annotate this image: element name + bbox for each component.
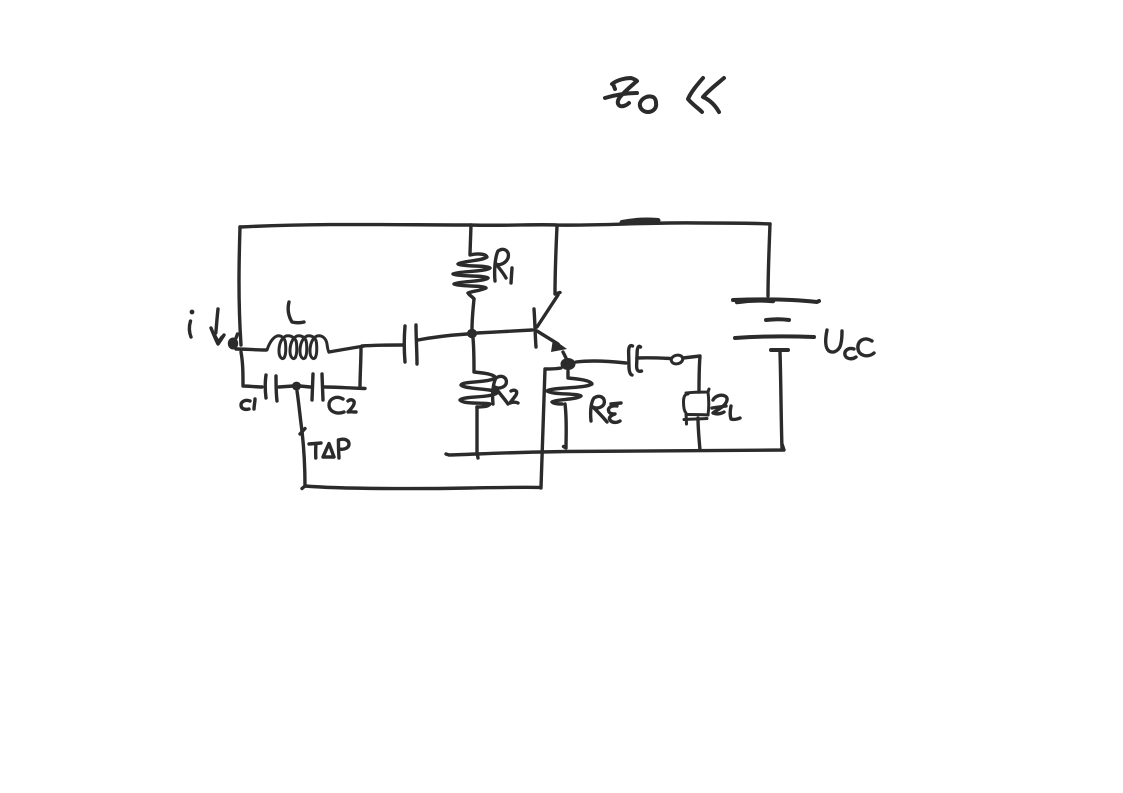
output terminal [670, 354, 683, 365]
label VCC [826, 330, 874, 359]
wire input node to inductor [236, 349, 266, 350]
wire base node to R2 [473, 338, 474, 371]
resistor R2 [460, 372, 497, 407]
wire inductor to coupling capacitor [362, 345, 403, 346]
wire battery to bottom rail [780, 352, 782, 449]
label << (title) [688, 78, 724, 112]
output capacitor [629, 346, 642, 375]
resistor RE [547, 371, 592, 404]
inductor L [267, 336, 329, 359]
wire emitter to feedback corner [546, 368, 561, 369]
capacitor C2 [312, 374, 323, 400]
label z_o (title) [605, 78, 656, 112]
wire left vertical [239, 227, 241, 345]
node emitter junction [561, 358, 576, 370]
wire top rail to R1 [470, 225, 471, 254]
current arrow [211, 309, 224, 344]
wire tap vertical [297, 391, 305, 486]
wire input node down to C1 [241, 352, 262, 387]
label TAP [309, 439, 349, 458]
node tap junction [292, 382, 301, 391]
wire coupling capacitor to base node [418, 334, 467, 340]
transistor Q1 [534, 295, 567, 358]
wire tap node to C2 [300, 386, 310, 387]
wire top rail to battery [768, 224, 770, 296]
wire R2 to bottom rail [477, 407, 478, 458]
resistor R1 [453, 254, 490, 299]
coupling capacitor [404, 325, 417, 364]
wire output capacitor to terminal [637, 356, 670, 360]
battery VCC [733, 299, 819, 350]
wire collector to top rail [555, 226, 560, 294]
wire bottom rail [446, 444, 784, 455]
wire inductor to corner [329, 346, 364, 352]
label i [189, 310, 194, 337]
label ZL [712, 395, 740, 419]
wire corner down to C2 [360, 348, 361, 388]
wire base node to transistor [477, 330, 532, 333]
wire feedback vertical [541, 369, 545, 488]
wire tap bottom run [302, 486, 540, 489]
wire top rail [240, 223, 770, 227]
wire C1 to tap node [279, 386, 293, 387]
wire ZL to bottom rail [698, 418, 700, 450]
label R1 [495, 249, 512, 283]
label C1 [241, 399, 255, 409]
wire emitter to output capacitor [576, 361, 626, 363]
label R2 [493, 376, 518, 404]
wire RE to bottom rail [564, 404, 567, 448]
node base junction [467, 329, 477, 338]
wire R1 to base node [472, 299, 474, 329]
load ZL [684, 389, 710, 424]
node input [228, 338, 238, 350]
label RE [591, 396, 621, 422]
wire C2 to corner [325, 387, 365, 389]
wire terminal to ZL [683, 356, 700, 392]
capacitor C1 [265, 375, 277, 401]
label C2 [329, 397, 356, 413]
label L [288, 302, 304, 323]
